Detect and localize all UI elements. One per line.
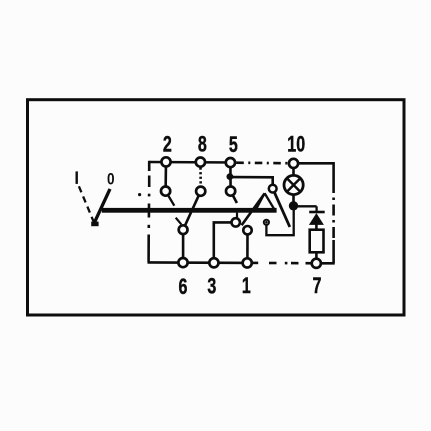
svg-text:3: 3 <box>207 275 216 299</box>
svg-text:7: 7 <box>313 275 322 299</box>
svg-text:2: 2 <box>163 133 172 157</box>
svg-text:10: 10 <box>287 133 305 157</box>
svg-text:5: 5 <box>229 134 238 158</box>
svg-text:1: 1 <box>242 275 251 299</box>
svg-text:8: 8 <box>198 133 207 157</box>
svg-text:0: 0 <box>107 170 115 189</box>
svg-text:6: 6 <box>179 276 188 300</box>
